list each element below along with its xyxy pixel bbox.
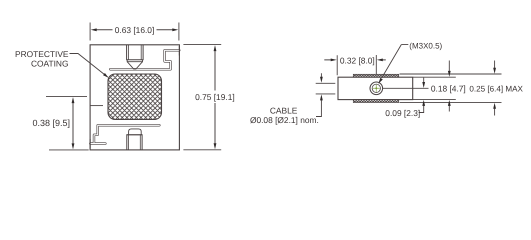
svg-text:0.32 [8.0]: 0.32 [8.0] bbox=[340, 56, 375, 66]
svg-text:0.25 [6.4] MAX: 0.25 [6.4] MAX bbox=[469, 84, 523, 93]
svg-text:0.09 [2.3]: 0.09 [2.3] bbox=[385, 108, 420, 118]
svg-text:0.38 [9.5]: 0.38 [9.5] bbox=[32, 118, 70, 128]
svg-text:PROTECTIVE: PROTECTIVE bbox=[15, 49, 69, 59]
svg-text:COATING: COATING bbox=[31, 59, 69, 69]
svg-text:Ø0.08 [Ø2.1] nom.: Ø0.08 [Ø2.1] nom. bbox=[250, 115, 319, 125]
svg-text:0.75 [19.1]: 0.75 [19.1] bbox=[195, 92, 235, 102]
svg-text:CABLE: CABLE bbox=[270, 106, 298, 116]
svg-text:(M3X0.5): (M3X0.5) bbox=[409, 41, 442, 50]
svg-text:0.63 [16.0]: 0.63 [16.0] bbox=[115, 25, 155, 35]
svg-text:0.18 [4.7]: 0.18 [4.7] bbox=[431, 83, 466, 93]
